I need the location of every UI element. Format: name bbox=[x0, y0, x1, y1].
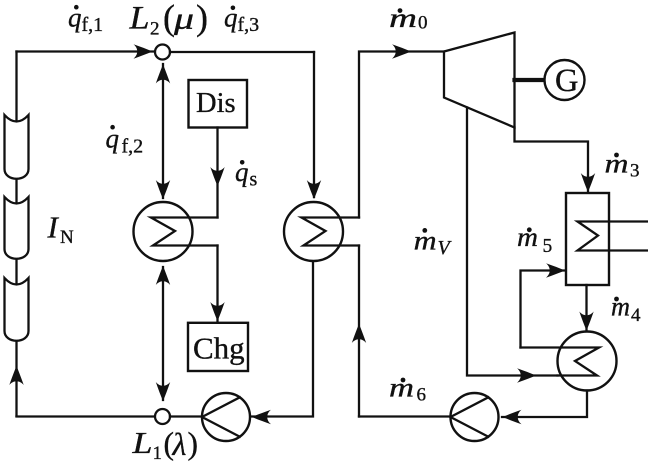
box FWH condenser bbox=[566, 193, 609, 285]
svg-text:m: m bbox=[517, 222, 538, 252]
wire HX3 bottom down and left into pump P2 bbox=[502, 391, 587, 418]
label q_f3 bbox=[224, 3, 259, 37]
arrowhead into pump P2 bbox=[503, 410, 522, 424]
collector 2 bbox=[5, 197, 29, 259]
arrowhead m5 into FWH bbox=[546, 263, 565, 277]
label m3 bbox=[605, 149, 640, 182]
svg-text:f,3: f,3 bbox=[238, 14, 260, 36]
label L1(lambda) bbox=[131, 425, 198, 463]
svg-text:V: V bbox=[438, 237, 453, 259]
collector 1 bbox=[5, 115, 29, 179]
wire m5 loop from HX3 top pipe to FWH left side bbox=[521, 271, 565, 348]
turbine bbox=[444, 33, 515, 128]
svg-text:2: 2 bbox=[150, 19, 160, 40]
heat exchanger HX1 circle bbox=[134, 202, 193, 261]
label q_s bbox=[235, 157, 258, 191]
svg-text:5: 5 bbox=[543, 236, 553, 257]
label m5 bbox=[517, 222, 552, 257]
arrowhead q_s down bbox=[210, 167, 224, 186]
svg-text:f,2: f,2 bbox=[122, 136, 144, 158]
svg-text:m: m bbox=[389, 3, 417, 33]
svg-text:m: m bbox=[389, 373, 414, 403]
wire node L1 to pump P1 bbox=[170, 415, 202, 417]
arrowhead q_f2 up bbox=[156, 65, 170, 84]
svg-text:μ: μ bbox=[173, 1, 194, 36]
arrowhead q_f3 down into HX2 bbox=[307, 180, 321, 199]
svg-text:I: I bbox=[47, 210, 60, 245]
arrowhead m3 into FWH bbox=[581, 173, 595, 192]
arrowhead q_f2 down bbox=[156, 180, 170, 199]
svg-text:s: s bbox=[250, 169, 258, 191]
wire turbine exhaust m3 to FWH box bbox=[515, 128, 589, 192]
wire bottom-left horizontal to node L1 bbox=[17, 415, 156, 417]
label m6 bbox=[389, 373, 426, 406]
pump P2 triangle bbox=[451, 397, 489, 436]
svg-text:0: 0 bbox=[418, 13, 428, 34]
svg-text:N: N bbox=[60, 227, 74, 248]
heat exchanger HX2 circle bbox=[284, 202, 343, 261]
svg-text:6: 6 bbox=[417, 384, 427, 405]
wire riser from pump P2 up into HX2 bottom pipe bbox=[358, 246, 360, 417]
wire HX2 bottom down and left into pump P1 bbox=[252, 261, 313, 417]
pump P1 circle bbox=[202, 393, 250, 441]
wire node L2 to q_f3 corner bbox=[170, 51, 314, 53]
svg-text:1: 1 bbox=[153, 443, 163, 463]
HX2 sigma coil bbox=[302, 218, 360, 246]
svg-text:4: 4 bbox=[631, 305, 641, 326]
svg-text:f,1: f,1 bbox=[82, 14, 104, 36]
label m0 bbox=[389, 3, 428, 33]
svg-text:λ: λ bbox=[172, 426, 187, 462]
svg-text:3: 3 bbox=[630, 161, 640, 182]
wire pump P2 out to riser bbox=[359, 415, 451, 417]
wire extraction mV from turbine down and right into HX3 bbox=[467, 108, 558, 376]
heat exchanger HX3 circle bbox=[558, 332, 617, 391]
svg-text:L: L bbox=[128, 1, 149, 37]
pump P1 triangle bbox=[202, 397, 240, 436]
label I_N bbox=[47, 210, 75, 249]
arrowhead m4 into HX3 bbox=[579, 312, 593, 331]
wire top-left horizontal to node L2 bbox=[17, 50, 156, 52]
HX3 sigma coil mirrored bbox=[521, 348, 600, 376]
svg-text:G: G bbox=[555, 63, 578, 99]
box Dis bbox=[189, 80, 248, 128]
flow arrow q_f2 double line bbox=[162, 64, 164, 198]
generator G circle bbox=[545, 60, 585, 100]
arrowhead m0 bbox=[392, 44, 411, 58]
collector 3 bbox=[5, 278, 29, 341]
arrowhead down toward node L1 bbox=[156, 382, 170, 401]
label mV bbox=[414, 226, 453, 260]
wire left vertical (solar field riser) bbox=[15, 52, 17, 417]
arrowhead up on riser bbox=[352, 324, 366, 343]
arrowhead mV right bbox=[517, 368, 536, 382]
box Chg bbox=[188, 323, 248, 371]
svg-text:): ) bbox=[188, 426, 199, 461]
wire FWH bottom to HX3 m4 bbox=[585, 285, 587, 330]
arrowhead into node L2 bbox=[134, 44, 153, 58]
svg-text:Dis: Dis bbox=[196, 88, 236, 119]
wire Dis down to HX1 top pipe bbox=[216, 128, 218, 218]
FWH sigma coil with cooling lines bbox=[578, 222, 648, 251]
arrowhead into Chg bbox=[210, 302, 224, 321]
arrowhead up on left riser bbox=[9, 366, 23, 385]
label m4 bbox=[611, 292, 641, 327]
svg-text:Chg: Chg bbox=[193, 331, 245, 366]
svg-text:m: m bbox=[611, 292, 630, 322]
turbine shaft bbox=[515, 78, 545, 82]
label q_f2 bbox=[106, 124, 144, 158]
label L2(mu) bbox=[128, 0, 208, 40]
arrowhead up toward HX1 bbox=[156, 266, 170, 285]
pump P2 circle bbox=[451, 393, 499, 441]
flow arrow below HX1 double line bbox=[162, 267, 164, 400]
wire HX2 top pipe up to turbine inlet bbox=[359, 52, 444, 218]
node L1 bbox=[155, 409, 170, 424]
svg-text:): ) bbox=[196, 0, 208, 38]
HX1 sigma coil bbox=[151, 218, 218, 246]
svg-text:L: L bbox=[131, 425, 152, 460]
wire q_f3 vertical into HX2 bbox=[313, 52, 315, 197]
node L2 bbox=[155, 45, 170, 60]
wire HX1 bottom pipe down to Chg bbox=[216, 246, 218, 322]
arrowhead into pump P1 bbox=[252, 410, 271, 424]
label q_f1 bbox=[68, 3, 103, 37]
